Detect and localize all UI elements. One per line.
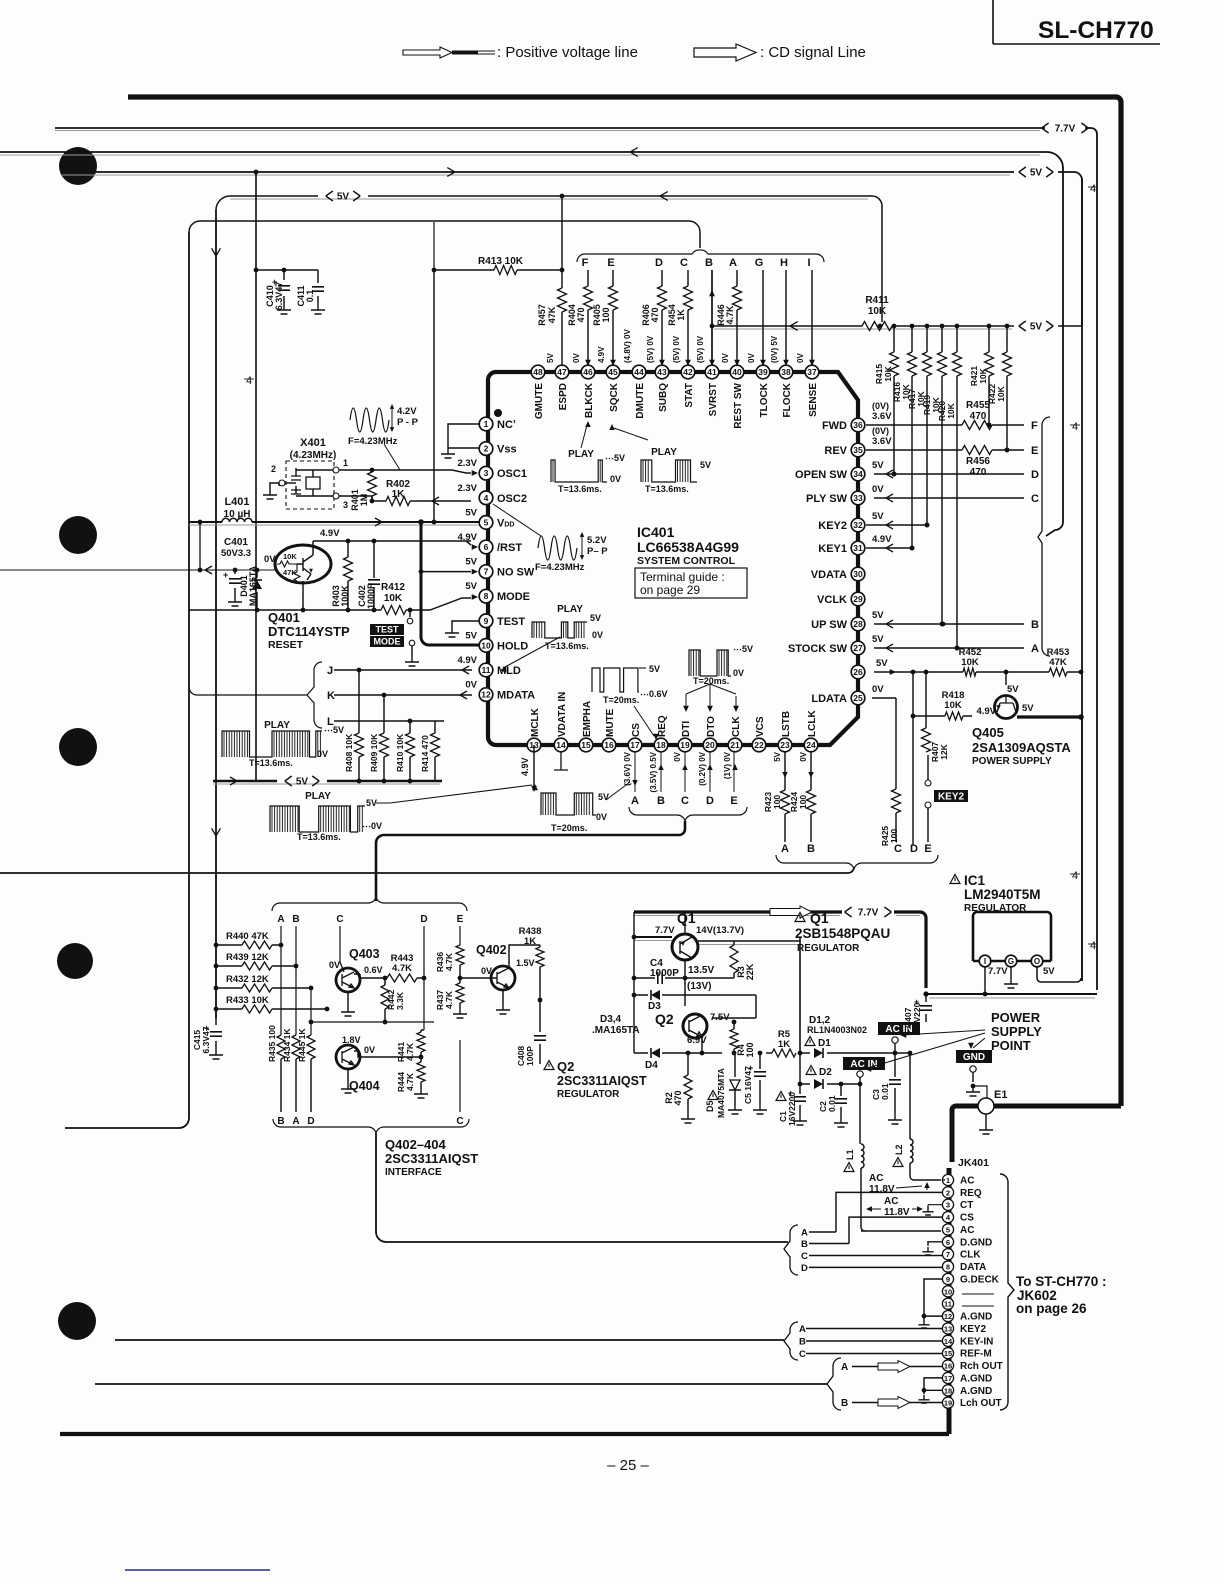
pin 41 SVRST	[705, 365, 719, 416]
svg-text:P– P: P– P	[587, 546, 608, 557]
node interface underbrace	[273, 1040, 469, 1133]
svg-text:1K: 1K	[392, 489, 406, 500]
svg-text:A: A	[1031, 643, 1039, 655]
svg-text:BLKCK: BLKCK	[584, 382, 595, 418]
waveform T=20ms (REQ)	[592, 664, 668, 740]
node TEST MODE switch	[405, 610, 419, 666]
svg-text:2: 2	[271, 464, 276, 474]
svg-text:C: C	[799, 1349, 806, 1360]
svg-text:(3.5V) 0.5V: (3.5V) 0.5V	[649, 751, 658, 792]
svg-text:2.3V: 2.3V	[457, 458, 477, 469]
svg-text:Q2: Q2	[655, 1011, 674, 1027]
svg-text:DATA: DATA	[960, 1262, 986, 1273]
svg-text:REGULATOR: REGULATOR	[964, 903, 1027, 914]
resistor R421	[969, 324, 994, 428]
wire OPEN SW row	[874, 469, 1039, 481]
svg-text:33: 33	[853, 493, 863, 503]
bottom blue mark	[125, 1569, 270, 1571]
svg-text:JK401: JK401	[958, 1157, 989, 1169]
svg-text:TEST: TEST	[375, 625, 399, 635]
resistor R4	[730, 1020, 755, 1058]
svg-text:SENSE: SENSE	[808, 383, 819, 417]
svg-text:MODE: MODE	[497, 591, 530, 603]
svg-text:T=13.6ms.: T=13.6ms.	[249, 758, 293, 768]
node 4 marks	[1070, 183, 1098, 952]
wire JK pin13 KEY2	[806, 1328, 943, 1330]
svg-text:SVRST: SVRST	[708, 383, 719, 416]
svg-text:470: 470	[673, 1090, 683, 1105]
wire JK pin1 from L2	[943, 1179, 945, 1181]
node letters A B C D E (interface top)	[277, 914, 463, 925]
transistor Q402	[458, 943, 540, 1014]
svg-text:470: 470	[650, 307, 660, 322]
svg-text:0V: 0V	[610, 474, 621, 484]
svg-text:4.7K: 4.7K	[725, 305, 735, 325]
resistor R413	[432, 256, 565, 521]
node letters A-E (bottom)	[631, 752, 738, 807]
wire KEY1 row	[866, 544, 914, 552]
svg-text:SL-CH770: SL-CH770	[1038, 17, 1154, 44]
wire Q405 output 5V	[1017, 714, 1084, 720]
svg-text:LC66538A4G99: LC66538A4G99	[637, 539, 739, 555]
svg-text:1.8V: 1.8V	[342, 1035, 361, 1045]
svg-text:4.7K: 4.7K	[444, 990, 454, 1009]
svg-text:100: 100	[798, 795, 808, 809]
svg-text:PLAY: PLAY	[651, 447, 677, 458]
svg-text:LSTB: LSTB	[781, 711, 792, 737]
node AB bracket (audio out)	[827, 1358, 841, 1410]
svg-text:470: 470	[970, 467, 987, 478]
pin 27 STOCK SW	[788, 634, 884, 655]
svg-text:4.7K: 4.7K	[444, 952, 454, 971]
pin 37 SENSE	[805, 365, 819, 417]
svg-text:5V: 5V	[296, 777, 309, 788]
resistor R416	[892, 324, 917, 551]
pin JK401-12 A.GND	[942, 1310, 992, 1322]
svg-text:0V: 0V	[465, 680, 477, 691]
wire 0V input line	[0, 522, 277, 574]
svg-text:D: D	[307, 1116, 314, 1127]
svg-text:– 25 –: – 25 –	[607, 1457, 649, 1474]
svg-text:5V: 5V	[872, 511, 884, 522]
pin 12 MDATA	[465, 680, 535, 702]
svg-text:C401: C401	[224, 537, 248, 548]
svg-text:R457: R457	[537, 304, 547, 326]
svg-text:11.8V: 11.8V	[869, 1184, 895, 1195]
title box SL-CH770	[993, 0, 1160, 44]
svg-text:C5 16V47: C5 16V47	[743, 1066, 753, 1104]
svg-text:22K: 22K	[745, 963, 755, 980]
svg-text:(0.2V) 0V: (0.2V) 0V	[698, 751, 707, 785]
node E1	[978, 1089, 1007, 1134]
registration dot 4	[57, 943, 93, 979]
capacitor C2	[818, 1084, 848, 1127]
pin 47 ESPD	[555, 365, 569, 410]
svg-text:T=20ms.: T=20ms.	[603, 695, 639, 705]
wire pin26 row	[874, 669, 1083, 675]
svg-text:0V: 0V	[747, 353, 756, 363]
wire JK pin15 REF-M	[806, 1353, 943, 1355]
wire JK pin17-18 A.GND	[918, 1378, 943, 1403]
resistor R2	[664, 1051, 695, 1123]
capacitor C401	[221, 537, 251, 606]
svg-text:0.1: 0.1	[305, 290, 315, 303]
svg-text:0V: 0V	[733, 668, 744, 678]
svg-text:T=13.6ms.: T=13.6ms.	[645, 484, 689, 494]
svg-text:D1: D1	[818, 1038, 831, 1049]
svg-text:LDATA: LDATA	[811, 693, 847, 705]
label POWER SUPPLY POINT	[865, 1010, 1042, 1072]
svg-text:5V: 5V	[872, 634, 884, 645]
svg-text:14V(13.7V): 14V(13.7V)	[696, 925, 744, 936]
wire NO SW	[419, 569, 478, 575]
svg-text:5.2V: 5.2V	[587, 535, 607, 546]
svg-text:F=4.23MHz: F=4.23MHz	[348, 436, 398, 447]
svg-text:R412: R412	[381, 582, 405, 593]
waveform T=20ms (CS)	[541, 782, 630, 833]
svg-text:(0V) 5V: (0V) 5V	[770, 335, 779, 363]
ground pins 1-2	[441, 424, 479, 458]
svg-text:10: 10	[944, 1287, 952, 1296]
node J K L bracket	[189, 662, 322, 728]
svg-text:19: 19	[944, 1399, 952, 1408]
svg-text:G: G	[1008, 957, 1014, 966]
label Q401	[268, 610, 350, 651]
svg-text:A.GND: A.GND	[960, 1386, 992, 1397]
IC401 labels	[637, 524, 739, 567]
pin 48 GMUTE	[531, 365, 545, 419]
wire annotation OSC2 to sine	[493, 504, 541, 536]
wire 13.5V node	[685, 960, 714, 1006]
svg-text:EMPHA: EMPHA	[582, 701, 593, 737]
svg-text:22: 22	[754, 740, 764, 750]
svg-text:OSC1: OSC1	[497, 468, 527, 480]
svg-text:GND: GND	[963, 1052, 985, 1063]
wire left vertical x634	[632, 912, 637, 1053]
resistor R408	[344, 670, 364, 781]
transistor Q405	[976, 672, 1034, 719]
label AC IN (lower)	[843, 1057, 885, 1084]
svg-text:0V: 0V	[596, 812, 607, 822]
pin 17 CS	[628, 723, 642, 752]
svg-text:T=13.6ms.: T=13.6ms.	[545, 641, 589, 651]
pin 25 LDATA	[811, 684, 884, 705]
svg-text:MLD: MLD	[497, 665, 521, 677]
svg-text:1: 1	[343, 458, 348, 468]
node D (top column to pin)	[641, 257, 667, 366]
node E (top column to pin)	[592, 257, 618, 366]
svg-text:100: 100	[601, 307, 611, 322]
svg-text:C: C	[456, 1116, 463, 1127]
resistor R434	[282, 1028, 300, 1112]
svg-text:5V: 5V	[872, 460, 884, 471]
pin JK401-11 ——	[942, 1298, 953, 1309]
wire 7.7V rail to IC1	[923, 991, 1097, 996]
bottom pin voltage labels	[623, 751, 808, 792]
svg-text:B: B	[657, 795, 665, 807]
svg-text:Lch OUT: Lch OUT	[960, 1398, 1002, 1409]
svg-text:MUTE: MUTE	[605, 708, 616, 737]
svg-text:L401: L401	[224, 496, 249, 508]
pin 43 SUBQ	[655, 365, 669, 412]
svg-text:Q1: Q1	[810, 910, 829, 926]
svg-text:KEY2: KEY2	[960, 1324, 987, 1335]
svg-text:R410 10K: R410 10K	[395, 733, 405, 772]
svg-text:R435 100: R435 100	[267, 1025, 277, 1062]
node interface overbrace	[272, 897, 467, 911]
wire JK pin7 CLK	[809, 1255, 943, 1257]
svg-text:100: 100	[772, 795, 782, 809]
transistor Q1	[634, 910, 744, 960]
svg-text:AC: AC	[960, 1176, 974, 1187]
svg-text:R413 10K: R413 10K	[478, 256, 524, 267]
svg-text:12: 12	[944, 1312, 952, 1321]
node letters A B (under R423 R424)	[781, 843, 815, 855]
svg-text:I: I	[807, 257, 810, 269]
pin JK401-18 A.GND	[942, 1385, 992, 1397]
waveform PLAY T=13.6ms (second)	[641, 447, 711, 494]
svg-text:50V3.3: 50V3.3	[221, 548, 251, 559]
svg-text:26: 26	[853, 667, 863, 677]
pin 21 CLK	[728, 716, 742, 752]
svg-text:100: 100	[889, 829, 899, 843]
svg-text:5V: 5V	[773, 751, 782, 761]
svg-text:C: C	[680, 257, 688, 269]
svg-text:R409 10K: R409 10K	[369, 733, 379, 772]
svg-text:L1: L1	[845, 1149, 855, 1160]
resistor R441	[396, 1030, 425, 1062]
svg-text:0.6V: 0.6V	[364, 965, 383, 975]
wire OSC1	[372, 470, 478, 476]
capacitor C3	[871, 1053, 902, 1124]
svg-text:16: 16	[944, 1362, 952, 1371]
svg-text:0V: 0V	[317, 749, 328, 759]
transistor Q404	[336, 1035, 423, 1093]
wire right vertical x1082	[1081, 180, 1083, 981]
positive rail shading	[0, 131, 1040, 330]
svg-text:A: A	[292, 1116, 299, 1127]
svg-text:(4.8V) 0V: (4.8V) 0V	[623, 329, 632, 363]
svg-text:4.7K: 4.7K	[405, 1072, 415, 1091]
capacitor C415	[192, 1009, 223, 1059]
svg-text:SUPPLY: SUPPLY	[991, 1024, 1042, 1039]
resistor R443	[385, 953, 426, 982]
svg-text:LCLK: LCLK	[807, 710, 818, 737]
svg-text:REF-M: REF-M	[960, 1349, 992, 1360]
svg-text:4: 4	[484, 493, 489, 503]
svg-text:CS: CS	[631, 723, 642, 737]
svg-text:12: 12	[481, 690, 491, 700]
svg-text:on page 29: on page 29	[640, 583, 700, 597]
node A B C D E underbrace (right)	[776, 855, 938, 869]
svg-text:6: 6	[484, 542, 489, 552]
label IC1	[950, 873, 1041, 914]
label Q1 regulator	[795, 910, 890, 954]
wire MCLK descender	[520, 745, 537, 792]
svg-text:CT: CT	[960, 1200, 973, 1211]
resistor R457	[537, 196, 567, 365]
pin JK401-17 A.GND	[942, 1372, 992, 1384]
svg-text:10K: 10K	[283, 552, 297, 561]
capacitor C407	[903, 994, 932, 1032]
wire UP SW row	[874, 619, 1039, 631]
waveform PLAY T=13.6ms (left)	[222, 720, 344, 768]
positive rail shading 5V bus	[213, 783, 440, 785]
svg-text:E: E	[1031, 445, 1038, 457]
svg-text:2SC3311AIQST: 2SC3311AIQST	[557, 1074, 647, 1088]
svg-text:R414 470: R414 470	[420, 735, 430, 772]
svg-text:C: C	[801, 1251, 808, 1262]
svg-text:D: D	[655, 257, 663, 269]
pin 13 MCLK	[527, 707, 541, 751]
waveform PLAY T=13.6ms (lower)	[270, 784, 538, 842]
svg-text:6.9V: 6.9V	[687, 1035, 707, 1046]
svg-text:9: 9	[484, 616, 489, 626]
capacitor C4	[634, 958, 687, 984]
pin 28 UP SW	[811, 610, 884, 631]
label AC 11.8V (pin1)	[869, 1173, 930, 1195]
svg-text:D3,4: D3,4	[600, 1014, 622, 1025]
diode D2	[798, 1053, 863, 1089]
svg-text:7: 7	[946, 1250, 950, 1259]
svg-text:IC1: IC1	[964, 873, 986, 888]
pin 19 DTI	[678, 721, 692, 752]
pin 35 REV	[824, 426, 892, 457]
svg-text:R432 12K: R432 12K	[226, 974, 269, 985]
svg-text:STAT: STAT	[684, 383, 695, 408]
svg-text:10K: 10K	[978, 367, 988, 383]
svg-text:21: 21	[730, 740, 740, 750]
svg-text:D5: D5	[705, 1100, 715, 1112]
svg-text:13: 13	[944, 1324, 952, 1333]
svg-text:PLAY: PLAY	[557, 604, 583, 615]
node ABC bracket (KEY)	[784, 1322, 806, 1360]
svg-text:2SA1309AQSTA: 2SA1309AQSTA	[972, 740, 1071, 755]
svg-text:RL1N4003N02: RL1N4003N02	[807, 1025, 867, 1035]
svg-text:4.9V: 4.9V	[597, 346, 606, 363]
svg-text:NO SW: NO SW	[497, 567, 535, 579]
wire line L	[327, 716, 444, 728]
svg-text:A: A	[781, 843, 789, 855]
positive rail shading VDD	[189, 524, 478, 526]
svg-text:C: C	[1031, 493, 1039, 505]
svg-text:10K: 10K	[384, 593, 403, 604]
svg-text:D: D	[706, 795, 714, 807]
pin 33 PLY SW	[806, 484, 884, 505]
svg-text:3.3K: 3.3K	[395, 991, 405, 1010]
svg-text:5V: 5V	[465, 630, 477, 641]
svg-text:FLOCK: FLOCK	[782, 382, 793, 417]
resistor R444	[396, 1057, 428, 1098]
svg-text:To ST-CH770 :: To ST-CH770 :	[1016, 1274, 1107, 1289]
svg-text:A: A	[799, 1324, 806, 1335]
svg-text:0V: 0V	[721, 353, 730, 363]
node ABCD bracket	[784, 1225, 849, 1275]
pin 23 LSTB	[778, 711, 792, 752]
resistor R418	[913, 690, 972, 720]
pin 7 NO SW	[465, 557, 535, 579]
svg-text:E: E	[730, 795, 737, 807]
svg-text:Vss: Vss	[497, 444, 517, 456]
wire long net audio group	[95, 1383, 827, 1385]
node G (top column to pin)	[755, 257, 766, 366]
pin 2 Vss	[479, 442, 516, 456]
inductor L401	[189, 496, 479, 526]
svg-text:A: A	[841, 1362, 848, 1373]
wire 7.7V bus	[634, 906, 926, 988]
svg-text:34: 34	[853, 469, 863, 479]
svg-text:R445 1K: R445 1K	[297, 1028, 307, 1062]
svg-text:11: 11	[482, 665, 491, 675]
label Q402-404	[385, 1137, 478, 1178]
svg-text:REGULATOR: REGULATOR	[797, 943, 860, 954]
resistor R425	[872, 698, 902, 855]
waveform T=20ms (DTI DTO CLK)	[689, 644, 753, 686]
resistor R423	[763, 752, 790, 842]
svg-text:10 µH: 10 µH	[224, 509, 251, 520]
resistor R436	[435, 945, 464, 978]
svg-text:C: C	[336, 914, 343, 925]
svg-text:D: D	[420, 914, 427, 925]
wire PLY SW row	[874, 493, 1039, 505]
pin 34 OPEN SW	[795, 460, 884, 481]
svg-text:7.7V: 7.7V	[858, 908, 879, 919]
ground VDATA IN	[554, 752, 568, 770]
svg-text:48: 48	[533, 367, 543, 377]
svg-text:4.9V: 4.9V	[457, 655, 477, 666]
svg-text:B: B	[277, 1116, 284, 1127]
svg-text:T=20ms.: T=20ms.	[551, 823, 587, 833]
svg-text:24: 24	[806, 740, 816, 750]
resistor R407	[922, 670, 950, 763]
svg-text:VDATA: VDATA	[811, 569, 847, 581]
svg-text:4: 4	[1090, 183, 1096, 195]
wire interface mid rail	[309, 1020, 434, 1025]
pin JK401-13 KEY2	[942, 1323, 986, 1335]
svg-text:POWER SUPPLY: POWER SUPPLY	[972, 756, 1052, 767]
svg-text:B: B	[292, 914, 299, 925]
svg-text:5V: 5V	[546, 353, 555, 363]
label AC 11.8V (pin3)	[866, 1196, 943, 1218]
svg-text:(0V): (0V)	[872, 426, 889, 436]
svg-text:Q405: Q405	[972, 725, 1004, 740]
inductor L2	[893, 1051, 941, 1180]
svg-text:/RST: /RST	[497, 542, 522, 554]
svg-text:Q2: Q2	[557, 1059, 574, 1074]
capacitor C1	[776, 1084, 807, 1126]
svg-text:on page 26: on page 26	[1016, 1301, 1087, 1316]
svg-text:31: 31	[853, 543, 863, 553]
pin 45 SQCK	[606, 365, 620, 412]
wire bus letters A-E to interface	[376, 821, 685, 901]
svg-text:2SB1548PQAU: 2SB1548PQAU	[795, 926, 890, 941]
resistor R439	[214, 952, 299, 970]
svg-text:0V: 0V	[481, 966, 492, 976]
wire JK pin16 Rch OUT	[841, 1361, 943, 1374]
svg-text:C: C	[681, 795, 689, 807]
svg-text:Q402: Q402	[476, 943, 507, 957]
svg-text:0V: 0V	[673, 751, 682, 761]
node F (top column to pin)	[567, 257, 593, 366]
resistor R452	[959, 647, 982, 676]
wire bottom thick return	[60, 1432, 949, 1436]
wire long net KEY group	[115, 1339, 784, 1341]
svg-text:Q402–404: Q402–404	[385, 1137, 446, 1152]
svg-text:10K: 10K	[944, 700, 962, 711]
svg-text:SYSTEM CONTROL: SYSTEM CONTROL	[637, 555, 736, 567]
registration dot 3	[59, 728, 97, 766]
svg-text:REST SW: REST SW	[733, 382, 744, 428]
